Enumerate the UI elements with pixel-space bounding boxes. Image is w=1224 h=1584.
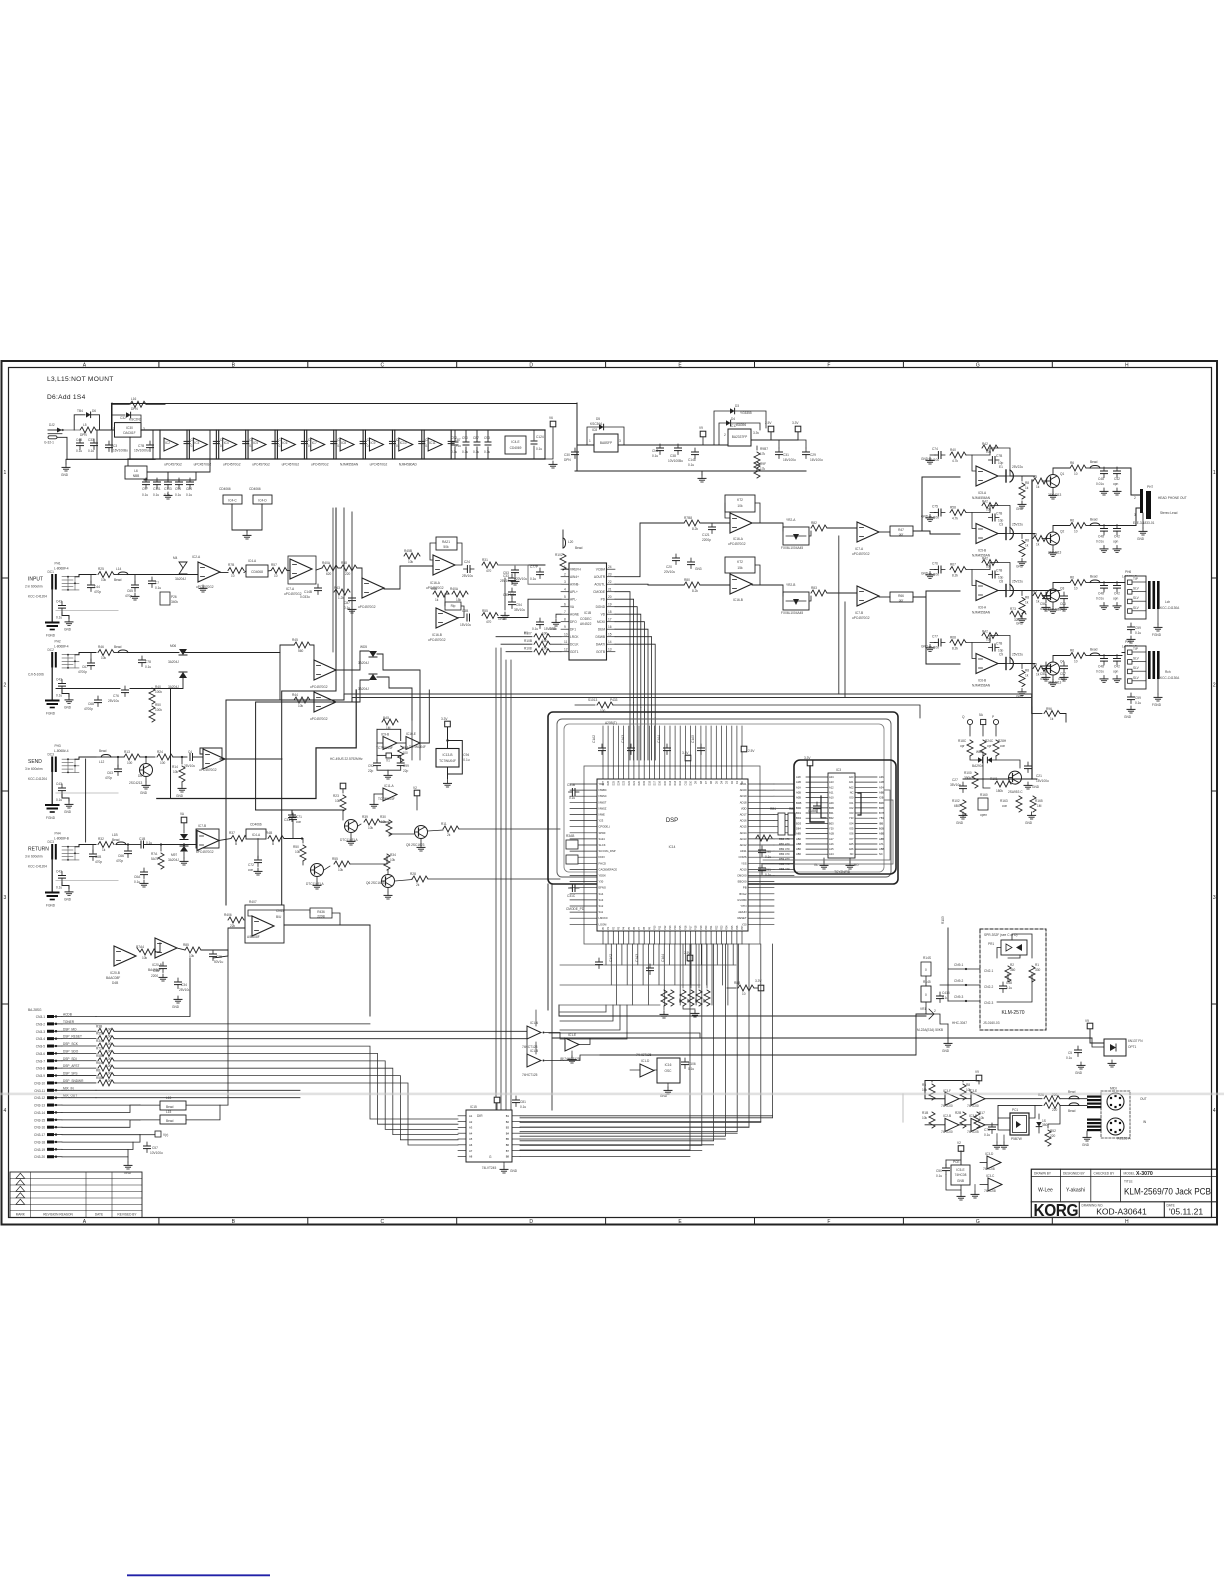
svg-text:P24: P24 xyxy=(726,925,729,930)
svg-text:R58: R58 xyxy=(950,506,956,510)
svg-text:Y-akashi: Y-akashi xyxy=(1066,1188,1085,1194)
capacitor C1A8 dsp bottom xyxy=(596,958,603,969)
svg-text:uPC4570G2: uPC4570G2 xyxy=(252,463,270,467)
wire xtal gnd rail xyxy=(377,769,401,771)
wire 3.3V branch xyxy=(771,432,798,440)
svg-text:R163: R163 xyxy=(1000,799,1008,803)
wire trimmer risers right xyxy=(838,536,840,694)
svg-text:L-8068#-4: L-8068#-4 xyxy=(54,749,69,753)
codec pin AIN4+ xyxy=(561,576,569,578)
svg-text:BDB: BDB xyxy=(796,801,802,805)
feedback resistor IC5-B xyxy=(982,503,998,509)
svg-text:BA5: BA5 xyxy=(383,716,389,720)
bead L15 xyxy=(160,1115,186,1124)
svg-text:C3: C3 xyxy=(999,523,1003,527)
net label DSP_MO xyxy=(62,1030,96,1032)
svg-text:Lch: Lch xyxy=(1165,600,1170,604)
svg-text:220B: 220B xyxy=(317,915,324,919)
svg-text:AD12: AD12 xyxy=(740,843,747,847)
sram pins right xyxy=(855,777,877,854)
svg-text:1k: 1k xyxy=(1025,674,1029,678)
svg-text:TC7WU04F: TC7WU04F xyxy=(439,759,456,763)
svg-text:GND: GND xyxy=(140,791,148,795)
svg-text:10k: 10k xyxy=(298,704,304,708)
svg-text:R42: R42 xyxy=(982,630,988,634)
op-amp IC16-A adc driver xyxy=(433,555,455,575)
wire PH1 tip out xyxy=(75,575,96,577)
svg-text:C77: C77 xyxy=(932,635,938,639)
resistor pair dsp bottom left xyxy=(661,990,667,1006)
buffer amp chain stage 8 xyxy=(369,438,383,451)
op-amp IC2-A input xyxy=(198,562,220,582)
capacitor C72 con xyxy=(257,839,259,859)
bead IC6-B xyxy=(1086,655,1090,657)
svg-text:3.3v: 3.3v xyxy=(753,431,759,435)
ground emitter Q3 xyxy=(1052,603,1054,607)
svg-text:16V100u: 16V100u xyxy=(783,458,796,462)
wire send output xyxy=(220,758,282,760)
sram outside pin labels left xyxy=(796,775,802,856)
codec pin DSWB xyxy=(607,636,616,638)
svg-text:74HC08: 74HC08 xyxy=(983,1167,995,1171)
svg-text:IO2: IO2 xyxy=(849,806,854,810)
svg-text:10: 10 xyxy=(1074,530,1078,534)
svg-text:CD4066: CD4066 xyxy=(219,487,231,491)
ground spare box xyxy=(960,1190,962,1193)
svg-text:RA21: RA21 xyxy=(442,540,450,544)
svg-text:SPDF: SPDF xyxy=(599,831,607,835)
svg-text:R83: R83 xyxy=(811,586,817,590)
svg-text:100: 100 xyxy=(106,1072,112,1076)
svg-text:0.1u: 0.1u xyxy=(451,450,457,454)
svg-text:BA2904: BA2904 xyxy=(972,764,984,768)
svg-text:DC1: DC1 xyxy=(48,570,55,574)
wire IC16-B to trimmer xyxy=(752,585,783,596)
svg-text:10k: 10k xyxy=(979,1116,985,1120)
svg-text:340k: 340k xyxy=(171,600,178,604)
codec pin VD xyxy=(607,613,616,615)
svg-text:C87: C87 xyxy=(473,436,479,440)
wire osc output xyxy=(654,1069,657,1071)
svg-text:YITN: YITN xyxy=(740,904,746,908)
svg-text:Q6 2SC1623: Q6 2SC1623 xyxy=(366,881,385,885)
svg-text:R5B: R5B xyxy=(96,1076,102,1080)
capacitor C65 470p xyxy=(1061,592,1068,603)
svg-text:3 in 600ohm: 3 in 600ohm xyxy=(25,855,43,859)
svg-text:REVISED BY: REVISED BY xyxy=(117,1212,137,1216)
svg-text:R17: R17 xyxy=(979,1111,985,1115)
svg-text:R18C: R18C xyxy=(958,739,967,743)
svg-text:50k: 50k xyxy=(443,545,449,549)
resistor R4B return xyxy=(268,836,284,842)
svg-text:C54: C54 xyxy=(516,603,522,607)
ground osc xyxy=(667,1083,669,1087)
svg-text:P: P xyxy=(992,715,994,719)
resistor R45 560 xyxy=(294,642,310,648)
svg-text:BD3: BD3 xyxy=(796,821,802,825)
svg-text:SLV: SLV xyxy=(1133,606,1140,610)
svg-text:3 in 600ohm: 3 in 600ohm xyxy=(25,767,43,771)
svg-text:2: 2 xyxy=(4,683,7,689)
svg-text:DPN: DPN xyxy=(131,407,138,411)
svg-text:D15: D15 xyxy=(664,780,667,785)
bead IC5-A xyxy=(1086,467,1090,469)
svg-text:L13: L13 xyxy=(166,1096,172,1100)
svg-text:GND: GND xyxy=(172,1005,180,1009)
wire regulator output rail xyxy=(618,444,728,446)
svg-text:C84: C84 xyxy=(186,487,192,491)
capacitor C48 IC5-B xyxy=(1101,525,1108,536)
svg-text:C77P: C77P xyxy=(530,565,538,569)
wire chain rail upper xyxy=(141,429,545,431)
codec pin GDT1 xyxy=(561,651,569,653)
svg-text:IS8396: IS8396 xyxy=(736,423,746,427)
capacitor chain C93 xyxy=(272,440,278,442)
svg-text:DSP_AFST: DSP_AFST xyxy=(63,1064,80,1068)
svg-text:R42: R42 xyxy=(982,557,988,561)
op-amp CN11 output box xyxy=(245,905,284,943)
svg-text:MARK: MARK xyxy=(16,1212,26,1216)
svg-text:220: 220 xyxy=(1050,1134,1056,1138)
svg-text:4: 4 xyxy=(564,588,566,592)
svg-text:CPODE_I: CPODE_I xyxy=(599,825,611,829)
terminal 3.3V xyxy=(795,426,801,432)
svg-text:R108: R108 xyxy=(524,647,532,651)
ground chain right xyxy=(549,461,557,468)
resistor array dsp bottom mid xyxy=(682,944,684,988)
wire bottom rail left xyxy=(67,458,155,460)
capacitor C1A3 dsp top xyxy=(628,744,635,755)
svg-text:Bead: Bead xyxy=(166,1119,174,1123)
wire PH3 tip out xyxy=(75,757,96,759)
wire dsp bottom fan xyxy=(606,944,739,1005)
buffer amp chain stage 9 xyxy=(399,438,413,451)
diode D1 1S350 xyxy=(1036,1122,1042,1127)
svg-text:35V10u: 35V10u xyxy=(950,783,961,787)
resistor R14 10k vertical send xyxy=(181,757,183,764)
svg-text:0.01u: 0.01u xyxy=(1096,597,1104,601)
wire sub rail xyxy=(147,430,210,472)
svg-text:IC16-A: IC16-A xyxy=(733,537,744,541)
wire R145 xyxy=(925,1002,927,1014)
svg-text:100: 100 xyxy=(542,647,548,651)
ground opto xyxy=(1077,1062,1085,1069)
capacitor C7B IC6-A xyxy=(989,571,1000,578)
svg-text:R42: R42 xyxy=(982,442,988,446)
svg-text:25V10u: 25V10u xyxy=(462,574,473,578)
svg-text:C48: C48 xyxy=(1098,477,1104,481)
ground M97 xyxy=(183,852,185,858)
svg-text:NWSC: NWSC xyxy=(599,794,607,798)
svg-text:A1B: A1B xyxy=(879,780,884,784)
wire mute row1 out xyxy=(428,830,443,831)
svg-text:D26: D26 xyxy=(607,780,610,785)
svg-text:C34: C34 xyxy=(181,983,187,987)
op-amp IC7-A output L xyxy=(857,522,879,542)
resistor R46 ph2 xyxy=(98,650,114,656)
svg-text:'05.11.21: '05.11.21 xyxy=(1169,1207,1203,1217)
svg-text:IC6: IC6 xyxy=(282,441,287,445)
svg-text:CN3-9: CN3-9 xyxy=(36,1074,45,1078)
capacitor C1A2 dsp top xyxy=(599,744,606,755)
svg-text:IC3-D: IC3-D xyxy=(985,1152,994,1156)
svg-text:uPC4570G2: uPC4570G2 xyxy=(164,463,182,467)
svg-text:R102: R102 xyxy=(555,553,563,557)
resistor R6 IC6-B xyxy=(1070,653,1086,659)
capacitor C31B dsp left xyxy=(569,789,580,796)
svg-text:R6: R6 xyxy=(1070,576,1074,580)
svg-text:C: C xyxy=(380,1219,384,1225)
codec pin DAATI xyxy=(607,643,616,645)
codec pin DEM xyxy=(607,628,616,630)
svg-text:R406: R406 xyxy=(224,913,232,917)
resistor R82 xyxy=(811,525,827,531)
svg-text:C: C xyxy=(380,362,384,368)
svg-text:CN3-10: CN3-10 xyxy=(34,1081,45,1085)
svg-text:4700p: 4700p xyxy=(78,670,87,674)
wire chain divider 10 xyxy=(423,430,425,459)
svg-text:TCY2N/RB: TCY2N/RB xyxy=(834,870,850,874)
svg-text:15V10u: 15V10u xyxy=(460,623,471,627)
bead L12 send xyxy=(96,756,100,758)
svg-text:100: 100 xyxy=(403,751,409,755)
resistor R28H vertical xyxy=(993,740,999,756)
wire chain divider 6 xyxy=(306,430,308,459)
svg-text:DSP_SDI: DSP_SDI xyxy=(63,1057,77,1061)
svg-text:C14B: C14B xyxy=(304,590,312,594)
svg-text:CN3-1: CN3-1 xyxy=(36,1015,45,1019)
resistor R57 xyxy=(271,568,287,574)
svg-text:4.7k: 4.7k xyxy=(952,459,958,463)
resistor R7 220 xyxy=(1044,1102,1060,1108)
resistor R43 1.2k xyxy=(334,589,350,595)
svg-text:3: 3 xyxy=(4,895,7,901)
terminal V2 mute xyxy=(340,783,346,789)
svg-text:B7: B7 xyxy=(506,1149,510,1153)
wire chain divider 7 xyxy=(335,430,337,459)
svg-text:con: con xyxy=(1000,744,1005,748)
op-amp IC8-B mid stage xyxy=(362,578,384,598)
wire long bus pair upper xyxy=(344,694,1032,714)
svg-text:GND: GND xyxy=(124,1171,132,1175)
svg-text:CODEC: CODEC xyxy=(580,617,592,621)
svg-text:10k: 10k xyxy=(189,954,195,958)
svg-text:DCFI: DCFI xyxy=(599,855,606,859)
capacitor bypass PH2 xyxy=(59,680,66,691)
svg-text:C3B: C3B xyxy=(153,969,159,973)
svg-text:P12: P12 xyxy=(664,925,667,930)
svg-text:1k: 1k xyxy=(1050,717,1054,721)
ground send transistor xyxy=(145,777,147,782)
electrolytic C3 25V22u xyxy=(998,533,1006,535)
svg-text:IC4-A: IC4-A xyxy=(248,559,257,563)
svg-text:uPC4570G2: uPC4570G2 xyxy=(852,616,870,620)
resistor R7B8 8.2k xyxy=(684,520,700,526)
svg-text:G: G xyxy=(976,362,980,368)
ground Q7 xyxy=(350,833,352,838)
svg-text:20: 20 xyxy=(608,595,612,599)
net label DSP_SCK xyxy=(62,1045,96,1047)
ground frame PH4 xyxy=(51,860,53,892)
svg-text:IO4: IO4 xyxy=(849,821,854,825)
svg-text:NWE: NWE xyxy=(599,813,605,817)
svg-text:GND: GND xyxy=(956,821,964,825)
svg-text:KCC-C41204: KCC-C41204 xyxy=(28,865,47,869)
svg-text:10: 10 xyxy=(1074,587,1078,591)
svg-text:CACB0/EFACE: CACB0/EFACE xyxy=(599,867,618,871)
svg-text:0.1u: 0.1u xyxy=(463,758,469,762)
svg-text:CN9-1: CN9-1 xyxy=(954,963,963,967)
svg-text:C97: C97 xyxy=(142,487,148,491)
svg-text:470p: 470p xyxy=(94,590,101,594)
resistor R3 base IC5-A xyxy=(1033,478,1049,484)
svg-text:S1013: S1013 xyxy=(588,698,597,702)
svg-text:P14: P14 xyxy=(674,925,677,930)
svg-text:EFNG: EFNG xyxy=(599,886,606,890)
svg-text:3: 3 xyxy=(1134,513,1136,517)
ground left chain xyxy=(65,459,67,464)
capacitor C38 0.1u module xyxy=(1000,982,1007,993)
svg-text:2200p: 2200p xyxy=(702,538,711,542)
svg-text:NC: NC xyxy=(879,852,883,856)
svg-text:X-3070: X-3070 xyxy=(1136,1171,1153,1177)
svg-text:PH7: PH7 xyxy=(1147,485,1153,489)
op-amp IC6-B NJM4556A xyxy=(976,654,998,674)
svg-text:D25: D25 xyxy=(612,780,615,785)
svg-text:CN3-12: CN3-12 xyxy=(34,1096,45,1100)
svg-text:EJE-3-1833-01: EJE-3-1833-01 xyxy=(1133,521,1155,525)
svg-text:R44: R44 xyxy=(292,693,298,697)
ground R8 IC6-A xyxy=(1018,616,1026,623)
resistor R436 220B xyxy=(310,908,332,918)
op-amp IC7-B output R xyxy=(857,586,879,606)
svg-text:100: 100 xyxy=(542,632,548,636)
svg-text:BD1: BD1 xyxy=(796,811,802,815)
svg-text:VCBM: VCBM xyxy=(596,567,606,571)
wire to jack PH5 xyxy=(1122,652,1125,654)
svg-text:YR2-A: YR2-A xyxy=(786,518,796,522)
svg-text:A1A: A1A xyxy=(796,785,801,789)
svg-text:8.2k: 8.2k xyxy=(692,589,698,593)
svg-text:S14: S14 xyxy=(599,892,604,896)
regulator IC30 DAC61F xyxy=(115,423,142,438)
svg-text:A71: A71 xyxy=(879,842,884,846)
svg-text:IC16-B: IC16-B xyxy=(733,598,743,602)
ground emitter Q1 xyxy=(1052,488,1054,492)
svg-text:Bead: Bead xyxy=(1090,460,1098,464)
wire to IC7-A xyxy=(827,527,857,529)
diode pair M97 BA2904 xyxy=(180,834,188,840)
resistor R34 100 xyxy=(98,1043,114,1049)
svg-text:CHECKED BY: CHECKED BY xyxy=(1094,1171,1116,1175)
transistor Q1 2SC4213 xyxy=(1042,480,1046,482)
svg-text:R55: R55 xyxy=(96,1032,102,1036)
sram bus loop xyxy=(794,760,896,874)
resistor RB 100 xyxy=(98,1073,114,1079)
capacitor C76 feedback xyxy=(935,566,946,573)
wire chain divider 5 xyxy=(276,430,278,459)
svg-text:15k: 15k xyxy=(737,566,743,570)
svg-text:10k: 10k xyxy=(737,504,743,508)
svg-text:L-8068#-4: L-8068#-4 xyxy=(54,645,69,649)
test point R18C xyxy=(967,719,972,724)
wire IC11-A input xyxy=(374,793,383,795)
svg-text:R8: R8 xyxy=(1025,481,1029,485)
svg-text:C76: C76 xyxy=(113,694,119,698)
wire bead riser to audio cluster xyxy=(227,950,229,1105)
ground PH1 xyxy=(62,612,69,619)
svg-text:VREFH: VREFH xyxy=(570,567,582,571)
svg-text:con: con xyxy=(248,868,253,872)
svg-text:3: 3 xyxy=(1213,895,1216,901)
svg-text:M06: M06 xyxy=(170,644,176,648)
svg-text:CN3-8: CN3-8 xyxy=(36,1067,45,1071)
svg-text:0.01u: 0.01u xyxy=(1096,670,1104,674)
capacitor C1B8 sram xyxy=(814,802,821,813)
svg-text:IC14: IC14 xyxy=(669,845,676,849)
ic IC5-E 74HC08 spare box xyxy=(951,1165,970,1185)
svg-text:V9: V9 xyxy=(1085,1019,1089,1023)
ground Q5 xyxy=(420,839,422,844)
svg-text:DAC61F: DAC61F xyxy=(123,431,135,435)
svg-text:23: 23 xyxy=(608,573,612,577)
svg-text:GND: GND xyxy=(64,628,72,632)
svg-text:19: 19 xyxy=(608,603,612,607)
svg-text:D6: D6 xyxy=(92,409,96,413)
svg-text:M-22A(EJA) 50KB: M-22A(EJA) 50KB xyxy=(917,1028,943,1032)
svg-text:R31: R31 xyxy=(482,558,488,562)
svg-text:uPC4570G2: uPC4570G2 xyxy=(728,542,746,546)
wire bus loop inner xyxy=(564,724,884,872)
resistor R24C vertical xyxy=(980,740,986,756)
svg-text:5: 5 xyxy=(564,595,566,599)
svg-text:S124: S124 xyxy=(599,837,606,841)
svg-text:4700p: 4700p xyxy=(84,707,93,711)
ground emitter Q4 xyxy=(1052,676,1054,680)
wire top bus rail xyxy=(112,403,578,405)
ground PH3 xyxy=(62,795,69,802)
svg-text:BD2: BD2 xyxy=(796,816,802,820)
wire CN3-4 long to gate IC1-B xyxy=(114,1039,527,1060)
svg-text:NJM4556AN: NJM4556AN xyxy=(972,684,991,688)
diode D4 IS8396 xyxy=(719,423,726,445)
svg-text:B: B xyxy=(272,842,274,846)
svg-text:R55: R55 xyxy=(332,857,338,861)
svg-text:R2: R2 xyxy=(1010,963,1014,967)
svg-text:35V10u: 35V10u xyxy=(514,608,525,612)
codec pin AOUTL xyxy=(607,583,616,585)
wire send to transistor xyxy=(140,756,155,758)
bead L20 vref xyxy=(562,530,564,538)
svg-text:10: 10 xyxy=(1074,472,1078,476)
svg-text:15k: 15k xyxy=(456,598,462,602)
ground VR1 xyxy=(947,1024,949,1040)
wire return to M97 xyxy=(144,844,197,846)
resistor R55 100 xyxy=(98,1036,114,1042)
sheet outer border xyxy=(2,361,1218,1225)
op-amp IC6-A NJM4556A xyxy=(976,581,998,601)
svg-text:SLV: SLV xyxy=(1133,596,1140,600)
svg-text:C21: C21 xyxy=(1036,774,1042,778)
wire dsp right fan xyxy=(774,784,794,876)
svg-text:100: 100 xyxy=(600,709,606,713)
svg-text:0.1u: 0.1u xyxy=(1135,631,1141,635)
wire mute row2 out xyxy=(395,880,412,882)
svg-text:470p: 470p xyxy=(116,859,123,863)
svg-text:D23: D23 xyxy=(623,780,626,785)
svg-text:CMODE_PD: CMODE_PD xyxy=(566,907,585,911)
svg-text:R7B: R7B xyxy=(228,563,234,567)
